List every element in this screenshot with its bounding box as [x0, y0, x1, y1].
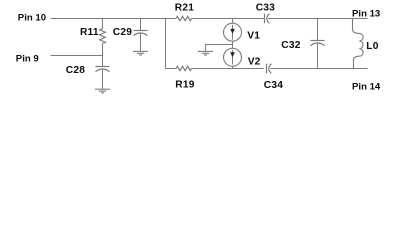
wire Pin 9 rail [51, 55, 104, 57]
wire bottom rail right segment (C34 to Pin 14 end) [271, 68, 368, 70]
svg-text:R11: R11 [80, 27, 99, 38]
svg-text:Pin 13: Pin 13 [352, 9, 380, 20]
svg-text:C28: C28 [66, 65, 85, 76]
svg-text:V2: V2 [248, 57, 261, 68]
current source V2 [224, 48, 242, 68]
svg-text:R19: R19 [175, 80, 194, 91]
wire top rail left segment (Pin 10 to R21) [51, 18, 177, 20]
svg-text:Pin 9: Pin 9 [16, 54, 39, 65]
wire V1-V2 midpoint junction [232, 41, 234, 48]
svg-text:R21: R21 [175, 3, 194, 14]
ground under C29 [133, 51, 148, 55]
svg-text:C34: C34 [264, 80, 283, 91]
svg-text:C29: C29 [113, 27, 132, 38]
resistor R19 [176, 66, 192, 70]
wire bottom rail left segment (left vertical to R19) [166, 68, 177, 70]
resistor R21 [176, 16, 192, 20]
wire top rail middle segment (R21 to C33) [192, 18, 265, 20]
svg-text:C32: C32 [281, 40, 300, 51]
capacitor C29 [134, 19, 148, 52]
wire top rail right segment (C33 to Pin 13 end) [268, 18, 368, 20]
capacitor C33 [265, 14, 270, 24]
wire left vertical connecting top rail to bottom rail [165, 19, 167, 69]
svg-text:Pin 10: Pin 10 [18, 13, 46, 24]
svg-text:Pin 14: Pin 14 [352, 81, 381, 92]
svg-text:C33: C33 [256, 3, 275, 14]
svg-text:V1: V1 [247, 31, 260, 42]
ground under C28 [95, 89, 110, 93]
resistor R11 [100, 19, 106, 56]
svg-text:L0: L0 [366, 41, 378, 52]
wire bottom rail middle segment (R19 to C34) [192, 68, 264, 70]
capacitor C34 [267, 64, 272, 74]
inductor L0 [353, 19, 364, 69]
capacitor C32 [311, 19, 325, 69]
wire midpoint to ground [206, 45, 233, 52]
current source V1 [224, 19, 242, 42]
ground at V1/V2 midpoint [198, 51, 213, 55]
capacitor C28 [96, 56, 110, 89]
